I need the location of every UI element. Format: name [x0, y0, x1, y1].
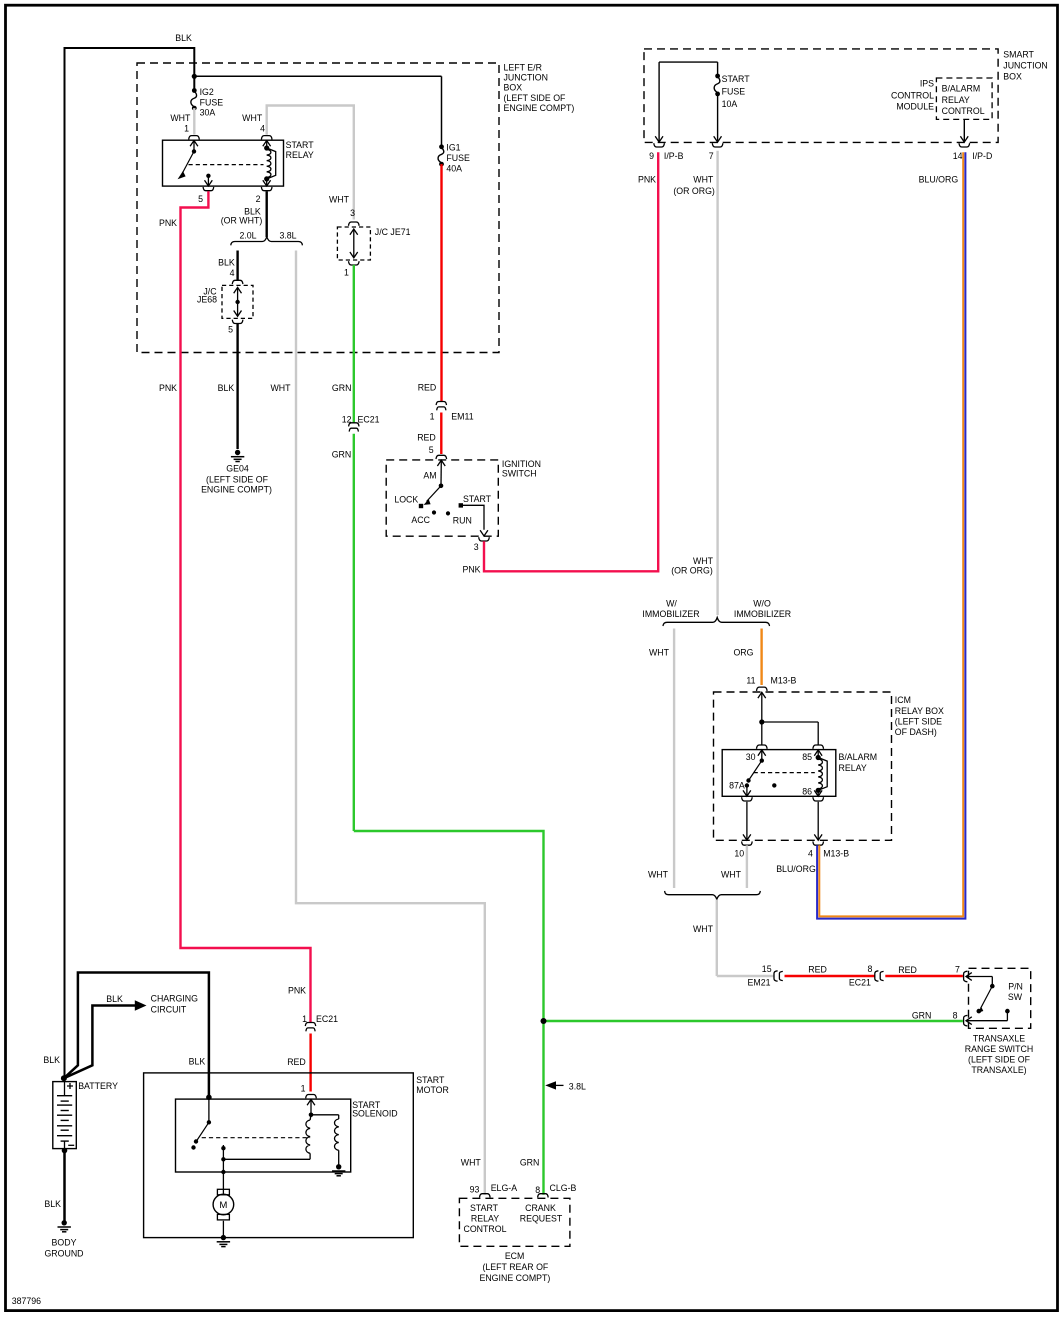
- svg-text:I/P-D: I/P-D: [972, 151, 992, 161]
- svg-text:5: 5: [228, 325, 233, 335]
- svg-text:WHT: WHT: [648, 870, 669, 880]
- svg-text:RELAY: RELAY: [942, 95, 970, 105]
- svg-text:START: START: [470, 1203, 499, 1213]
- svg-text:W/O: W/O: [753, 599, 771, 609]
- svg-text:GRN: GRN: [332, 450, 352, 460]
- svg-text:PNK: PNK: [159, 383, 177, 393]
- svg-text:LEFT E/R: LEFT E/R: [504, 62, 542, 72]
- svg-text:JE68: JE68: [197, 295, 217, 305]
- svg-text:1: 1: [301, 1084, 306, 1094]
- svg-text:1: 1: [302, 1014, 307, 1024]
- svg-text:(OR ORG): (OR ORG): [673, 186, 715, 196]
- svg-text:(LEFT REAR OF: (LEFT REAR OF: [482, 1262, 548, 1272]
- svg-text:START: START: [416, 1075, 445, 1085]
- svg-text:PNK: PNK: [638, 175, 656, 185]
- svg-text:8: 8: [868, 964, 873, 974]
- svg-text:30: 30: [746, 752, 756, 762]
- svg-text:5: 5: [198, 194, 203, 204]
- svg-text:ENGINE COMPT): ENGINE COMPT): [201, 484, 272, 494]
- svg-text:RANGE SWITCH: RANGE SWITCH: [965, 1044, 1033, 1054]
- svg-text:CONTROL: CONTROL: [891, 90, 934, 100]
- svg-text:CIRCUIT: CIRCUIT: [151, 1005, 187, 1015]
- svg-text:EC21: EC21: [358, 415, 380, 425]
- svg-text:CONTROL: CONTROL: [942, 106, 985, 116]
- svg-text:BLK: BLK: [218, 383, 235, 393]
- svg-text:M: M: [219, 1200, 227, 1211]
- svg-text:GRN: GRN: [520, 1158, 540, 1168]
- svg-text:SWITCH: SWITCH: [502, 468, 537, 478]
- svg-text:RUN: RUN: [453, 516, 472, 526]
- svg-text:WHT: WHT: [721, 870, 742, 880]
- svg-text:BLU/ORG: BLU/ORG: [776, 864, 816, 874]
- svg-text:RELAY: RELAY: [839, 763, 867, 773]
- svg-text:4: 4: [260, 124, 265, 134]
- svg-text:GRN: GRN: [912, 1011, 932, 1021]
- svg-text:MODULE: MODULE: [896, 101, 934, 111]
- svg-text:WHT: WHT: [242, 113, 263, 123]
- svg-text:CLG-B: CLG-B: [550, 1183, 577, 1193]
- svg-text:RED: RED: [898, 965, 917, 975]
- svg-text:2: 2: [256, 194, 261, 204]
- svg-text:(OR ORG): (OR ORG): [671, 566, 713, 576]
- svg-text:IMMOBILIZER: IMMOBILIZER: [642, 609, 699, 619]
- svg-text:TRANSAXLE): TRANSAXLE): [971, 1065, 1026, 1075]
- svg-text:4: 4: [808, 849, 813, 859]
- svg-text:CHARGING: CHARGING: [151, 994, 199, 1004]
- svg-text:BLK: BLK: [106, 994, 123, 1004]
- svg-text:12: 12: [342, 415, 352, 425]
- svg-text:RELAY BOX: RELAY BOX: [895, 706, 944, 716]
- svg-text:OF DASH): OF DASH): [895, 727, 937, 737]
- svg-text:WHT: WHT: [461, 1158, 482, 1168]
- svg-text:PNK: PNK: [462, 565, 480, 575]
- svg-text:RED: RED: [417, 433, 436, 443]
- svg-text:BOX: BOX: [504, 83, 523, 93]
- svg-text:EM21: EM21: [748, 978, 771, 988]
- svg-text:(LEFT SIDE OF: (LEFT SIDE OF: [504, 93, 567, 103]
- svg-text:I/P-B: I/P-B: [664, 151, 684, 161]
- svg-text:ENGINE COMPT): ENGINE COMPT): [504, 103, 575, 113]
- svg-text:(LEFT SIDE OF: (LEFT SIDE OF: [206, 474, 269, 484]
- svg-text:3.8L: 3.8L: [279, 231, 296, 241]
- svg-text:ECM: ECM: [505, 1251, 525, 1261]
- svg-text:387796: 387796: [12, 1296, 41, 1306]
- svg-text:SW: SW: [1008, 992, 1023, 1002]
- svg-text:GRN: GRN: [332, 383, 352, 393]
- svg-text:IPS: IPS: [920, 79, 934, 89]
- svg-text:PNK: PNK: [159, 218, 177, 228]
- svg-text:IG2: IG2: [200, 87, 214, 97]
- svg-text:J/C JE71: J/C JE71: [375, 227, 411, 237]
- svg-text:40A: 40A: [446, 164, 462, 174]
- svg-text:BATTERY: BATTERY: [78, 1081, 118, 1091]
- svg-text:11: 11: [746, 676, 755, 686]
- svg-text:CONTROL: CONTROL: [463, 1224, 506, 1234]
- svg-text:ENGINE COMPT): ENGINE COMPT): [479, 1273, 550, 1283]
- svg-text:93: 93: [470, 1184, 480, 1194]
- svg-text:RED: RED: [808, 964, 827, 974]
- svg-text:WHT: WHT: [170, 113, 191, 123]
- svg-text:BLK: BLK: [44, 1199, 61, 1209]
- svg-text:1: 1: [430, 412, 435, 422]
- svg-text:30A: 30A: [200, 108, 216, 118]
- svg-text:TRANSAXLE: TRANSAXLE: [973, 1033, 1025, 1043]
- svg-text:2.0L: 2.0L: [239, 231, 256, 241]
- svg-text:WHT: WHT: [270, 383, 291, 393]
- svg-text:3.8L: 3.8L: [569, 1082, 586, 1092]
- svg-text:BLK: BLK: [218, 257, 235, 267]
- svg-text:GROUND: GROUND: [44, 1249, 83, 1259]
- svg-text:FUSE: FUSE: [722, 86, 746, 96]
- svg-text:WHT: WHT: [693, 175, 714, 185]
- svg-text:BLU/ORG: BLU/ORG: [919, 175, 959, 185]
- svg-text:M13-B: M13-B: [771, 676, 797, 686]
- svg-text:JUNCTION: JUNCTION: [504, 73, 548, 83]
- svg-text:IMMOBILIZER: IMMOBILIZER: [734, 609, 791, 619]
- svg-text:RELAY: RELAY: [286, 150, 314, 160]
- svg-text:WHT: WHT: [693, 924, 714, 934]
- svg-text:3: 3: [474, 542, 479, 552]
- svg-text:GE04: GE04: [226, 464, 249, 474]
- svg-text:REQUEST: REQUEST: [520, 1214, 563, 1224]
- svg-text:IG1: IG1: [446, 143, 460, 153]
- svg-text:15: 15: [762, 964, 772, 974]
- svg-text:MOTOR: MOTOR: [416, 1085, 449, 1095]
- svg-text:BODY: BODY: [52, 1237, 77, 1247]
- svg-text:14: 14: [953, 151, 963, 161]
- svg-text:5: 5: [429, 445, 434, 455]
- svg-text:BOX: BOX: [1003, 71, 1022, 81]
- svg-text:PNK: PNK: [288, 985, 306, 995]
- svg-text:87A: 87A: [729, 781, 745, 791]
- svg-text:B/ALARM: B/ALARM: [942, 84, 981, 94]
- svg-text:P/N: P/N: [1008, 982, 1023, 992]
- svg-text:ICM: ICM: [895, 695, 911, 705]
- svg-text:(OR WHT): (OR WHT): [221, 216, 263, 226]
- svg-text:SMART: SMART: [1003, 49, 1034, 59]
- svg-text:M13-B: M13-B: [823, 849, 849, 859]
- svg-text:86: 86: [802, 787, 812, 797]
- svg-text:FUSE: FUSE: [200, 97, 224, 107]
- svg-text:BLK: BLK: [175, 33, 192, 43]
- svg-text:EM11: EM11: [451, 412, 473, 422]
- svg-text:(LEFT SIDE OF: (LEFT SIDE OF: [968, 1054, 1031, 1064]
- svg-text:RED: RED: [287, 1057, 306, 1067]
- svg-text:START: START: [722, 74, 751, 84]
- svg-text:WHT: WHT: [693, 556, 714, 566]
- svg-text:85: 85: [802, 752, 812, 762]
- svg-text:START: START: [286, 140, 315, 150]
- svg-text:JUNCTION: JUNCTION: [1003, 60, 1047, 70]
- svg-text:ACC: ACC: [411, 515, 430, 525]
- svg-text:SOLENOID: SOLENOID: [352, 1108, 397, 1118]
- svg-text:BLK: BLK: [43, 1055, 60, 1065]
- svg-text:10: 10: [734, 849, 744, 859]
- svg-text:10A: 10A: [722, 99, 738, 109]
- svg-text:BLK: BLK: [189, 1056, 206, 1066]
- svg-text:LOCK: LOCK: [394, 495, 418, 505]
- svg-text:ELG-A: ELG-A: [491, 1183, 518, 1193]
- svg-text:WHT: WHT: [329, 195, 350, 205]
- svg-text:ORG: ORG: [733, 648, 753, 658]
- svg-text:B/ALARM: B/ALARM: [839, 752, 878, 762]
- svg-text:CRANK: CRANK: [525, 1203, 556, 1213]
- svg-text:AM: AM: [423, 471, 436, 481]
- svg-text:FUSE: FUSE: [446, 153, 470, 163]
- svg-text:1: 1: [184, 124, 189, 134]
- svg-text:RED: RED: [418, 383, 437, 393]
- svg-text:WHT: WHT: [649, 648, 670, 658]
- svg-text:(LEFT SIDE: (LEFT SIDE: [895, 717, 942, 727]
- svg-text:START: START: [463, 494, 492, 504]
- svg-text:8: 8: [953, 1010, 958, 1020]
- svg-text:7: 7: [709, 151, 714, 161]
- svg-text:EC21: EC21: [849, 978, 871, 988]
- svg-text:7: 7: [955, 964, 960, 974]
- svg-text:RELAY: RELAY: [471, 1214, 499, 1224]
- svg-text:EC21: EC21: [316, 1014, 338, 1024]
- svg-text:1: 1: [344, 268, 349, 278]
- svg-text:4: 4: [230, 268, 235, 278]
- svg-text:3: 3: [350, 208, 355, 218]
- svg-text:9: 9: [649, 151, 654, 161]
- svg-text:W/: W/: [666, 599, 677, 609]
